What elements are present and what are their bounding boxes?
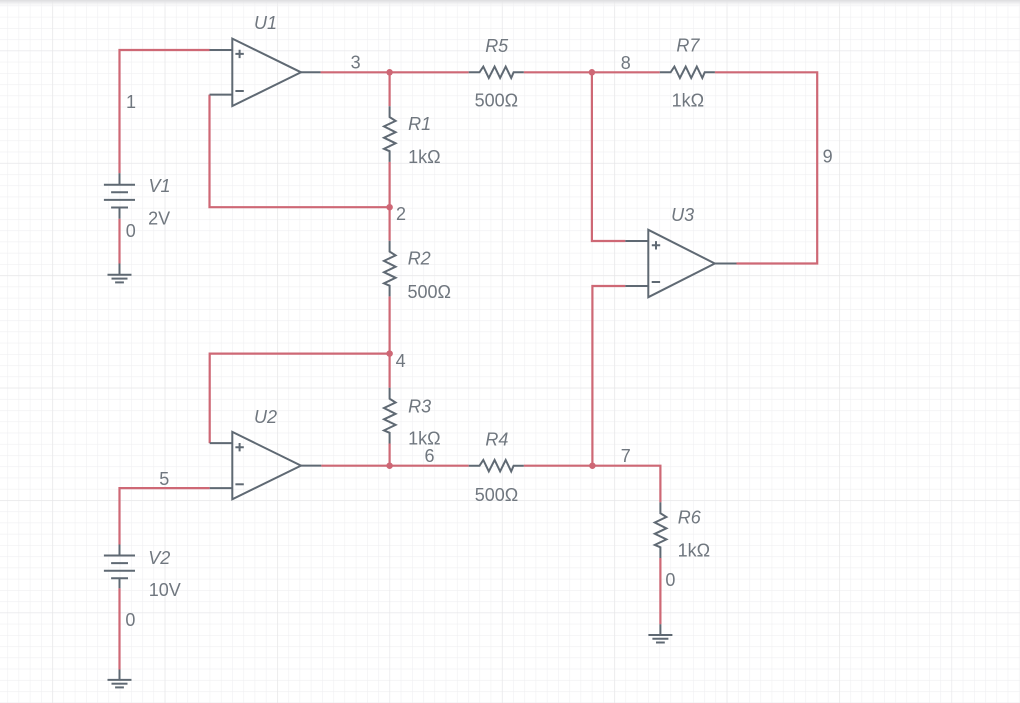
svg-text:5: 5: [159, 469, 169, 489]
wire U2 output to R4 left through node 6: [321, 465, 468, 467]
wire node 7 up to U3 - input: [592, 286, 625, 466]
wire node 9 R7 right to U3 output: [715, 72, 817, 263]
ground V2: [108, 670, 132, 688]
resistor R7: [660, 67, 715, 78]
svg-text:2V: 2V: [148, 208, 170, 228]
svg-text:R7: R7: [676, 36, 700, 56]
wire V2 negative to ground: [118, 588, 120, 669]
wire node 1 horizontal V1 to U1 + input: [120, 50, 210, 173]
svg-text:7: 7: [621, 446, 631, 466]
wire R4 right to node 7: [524, 465, 593, 467]
svg-text:0: 0: [126, 221, 136, 241]
resistor R4: [469, 460, 524, 471]
resistor R3: [384, 388, 396, 444]
svg-text:R4: R4: [485, 430, 508, 450]
wire R5 right to R7 left through node 8: [524, 71, 660, 73]
op-amp U3: [625, 230, 736, 297]
wire R2 bottom to node 4: [389, 296, 391, 353]
wire R1 bottom to node 2: [389, 162, 391, 207]
svg-text:U1: U1: [254, 13, 277, 33]
svg-text:1: 1: [126, 92, 136, 112]
svg-text:U2: U2: [254, 407, 277, 427]
svg-text:2: 2: [396, 204, 406, 224]
node 2 junction dot: [386, 204, 393, 211]
svg-text:R2: R2: [408, 249, 431, 269]
wire R6 bottom to ground: [659, 558, 661, 624]
svg-text:8: 8: [621, 53, 631, 73]
wire node 4 to R3 top: [389, 354, 391, 388]
resistor R2: [384, 241, 396, 297]
svg-text:R6: R6: [678, 508, 702, 528]
svg-text:1kΩ: 1kΩ: [408, 147, 440, 167]
node 4 junction dot: [386, 350, 393, 357]
wire node 3 to R1 top: [389, 72, 391, 106]
svg-text:V1: V1: [149, 176, 171, 196]
ground R6: [648, 624, 672, 642]
wire V1 negative to ground: [118, 219, 120, 264]
resistor R5: [469, 67, 524, 78]
node 7 junction dot: [589, 462, 596, 469]
resistor R6: [655, 502, 667, 558]
node 3 junction dot: [386, 69, 393, 76]
wire U1 output to R5 left: [321, 71, 469, 73]
svg-text:1kΩ: 1kΩ: [678, 540, 710, 560]
resistor R1: [384, 106, 396, 162]
svg-text:3: 3: [351, 53, 361, 73]
wire node 7 to R6 top: [592, 466, 660, 503]
svg-text:U3: U3: [671, 205, 694, 225]
svg-text:4: 4: [396, 351, 406, 371]
wire node 4 feedback to U2 + input: [210, 354, 390, 444]
svg-text:10V: 10V: [149, 580, 181, 600]
ground V1: [108, 264, 132, 283]
svg-text:0: 0: [125, 610, 135, 630]
op-amp U2: [210, 432, 322, 499]
svg-text:0: 0: [665, 570, 675, 590]
svg-text:V2: V2: [148, 548, 170, 568]
svg-text:9: 9: [823, 147, 833, 167]
voltage source V2: [104, 545, 135, 589]
svg-text:1kΩ: 1kΩ: [672, 91, 704, 111]
wire node 5 horizontal V2 to U2 - input: [120, 488, 210, 544]
svg-text:6: 6: [424, 446, 434, 466]
wire node 2 to R2 top: [389, 207, 391, 241]
svg-text:500Ω: 500Ω: [475, 485, 519, 505]
svg-text:R3: R3: [408, 396, 431, 416]
op-amp U1: [210, 39, 321, 106]
node 8 junction dot: [589, 69, 596, 76]
wire R3 bottom to node 6: [389, 444, 391, 466]
svg-text:500Ω: 500Ω: [408, 282, 452, 302]
node 6 junction dot: [386, 462, 393, 469]
svg-text:R5: R5: [485, 36, 509, 56]
wire node 2 feedback U1 - input: [210, 95, 390, 208]
wire node 8 down to U3 + input: [592, 72, 625, 241]
voltage source V1: [104, 173, 135, 219]
svg-text:R1: R1: [408, 114, 431, 134]
svg-text:500Ω: 500Ω: [475, 91, 519, 111]
